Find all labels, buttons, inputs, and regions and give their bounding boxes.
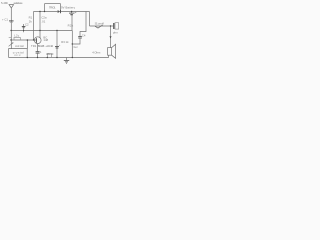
wire antenna lead [10,8,12,49]
transistor TR1 circle [34,37,41,44]
capacitor C4 [78,36,82,38]
svg-text:0.1: 0.1 [38,50,42,54]
node emitter-rail [37,57,38,58]
wire top bus [34,11,90,13]
node base drop [27,39,29,41]
capacitor C3 plates [55,46,59,48]
node bus B [44,11,45,12]
wire collector into TR1 [39,31,41,38]
svg-text:9V Battery: 9V Battery [61,5,76,9]
svg-text:.01: .01 [41,19,45,23]
resistor R4 box [48,54,52,58]
wire link riser right [60,4,62,12]
svg-text:L2c: L2c [14,34,20,38]
svg-text:TR1: TR1 [31,44,37,48]
node mic-base [10,39,11,40]
wire collector stub top [39,12,41,31]
wire C4 bottom [72,38,80,44]
wire battery minus drop [71,15,73,31]
speaker LS1 box [108,48,112,56]
wire bottom rail [9,57,109,59]
node R4-rail [47,57,48,58]
node collector-rail [39,30,40,31]
node C3-bottom [56,57,57,58]
microphone box [9,49,28,58]
svg-text:148: 148 [43,38,48,42]
wire branch C4 top [80,12,86,37]
wire C3 drop [56,31,58,58]
svg-text:+ C1: + C1 [2,17,8,21]
svg-text:5-4Mt: 5-4Mt [1,1,8,5]
wire collector riser [33,12,35,41]
earphone bar [113,23,115,29]
wire emitter lead [37,44,39,52]
transistor TR1 base bar [35,38,37,43]
svg-text:phn: phn [113,31,118,35]
wire switch riser [89,12,91,27]
node base-R1 [33,39,34,40]
node speaker tap [110,25,111,26]
svg-text:TR-D1: TR-D1 [49,6,56,10]
capacitor C5 plates [36,51,40,53]
antenna AE1 [9,5,14,8]
wire speaker to rail [108,55,110,57]
svg-text:.001 mfd: .001 mfd [46,52,54,56]
svg-text:mic: mic [15,53,22,57]
earphone box [115,23,119,29]
wire common drop [71,31,73,58]
svg-text:S1 on-off: S1 on-off [95,21,104,25]
wire speaker drop [110,26,112,48]
svg-text:4 Ohm: 4 Ohm [92,50,101,54]
svg-text:R3 1k: R3 1k [61,40,69,44]
wire output line [90,25,114,27]
speaker cone [112,44,116,58]
text labels (illegible smudge scale) [1,1,118,57]
wire ground rail mid [11,30,72,32]
trimmer arrow [9,43,14,47]
capacitor C1 plates [9,20,14,22]
svg-text:aerial.wre: aerial.wre [14,1,23,5]
node common-rail [72,57,73,58]
tick mic polarity [9,37,11,39]
node mic-rail [27,57,28,58]
node C3-rail [56,30,57,31]
node C4-common [72,43,73,44]
wire base drop [26,40,28,49]
battery B1 [71,12,73,13]
wire top link [45,3,61,5]
wire link riser left [44,4,46,12]
node trimmer-rail [23,30,24,31]
ground [66,58,68,61]
diode D1 [58,10,61,13]
arrow jack [110,36,112,38]
svg-text:C4: C4 [82,34,86,38]
svg-text:bel: bel [74,45,78,49]
svg-text:cnd mic: cnd mic [15,44,25,48]
junction dots [10,11,111,58]
node antenna-rail [10,30,11,31]
node bus A [39,11,40,12]
svg-text:BC148: BC148 [38,44,45,48]
svg-text:R2k: R2k [68,24,74,28]
node battery-bus [71,11,72,12]
wire base link [11,39,37,41]
wire emitter to rail [37,53,39,57]
svg-text:C2: C2 [25,23,29,27]
svg-text:+10mfd: +10mfd [45,44,53,48]
inductor L2 box [14,37,20,40]
capacitor C2 trimmer [23,24,25,32]
switch S1 [95,25,103,28]
